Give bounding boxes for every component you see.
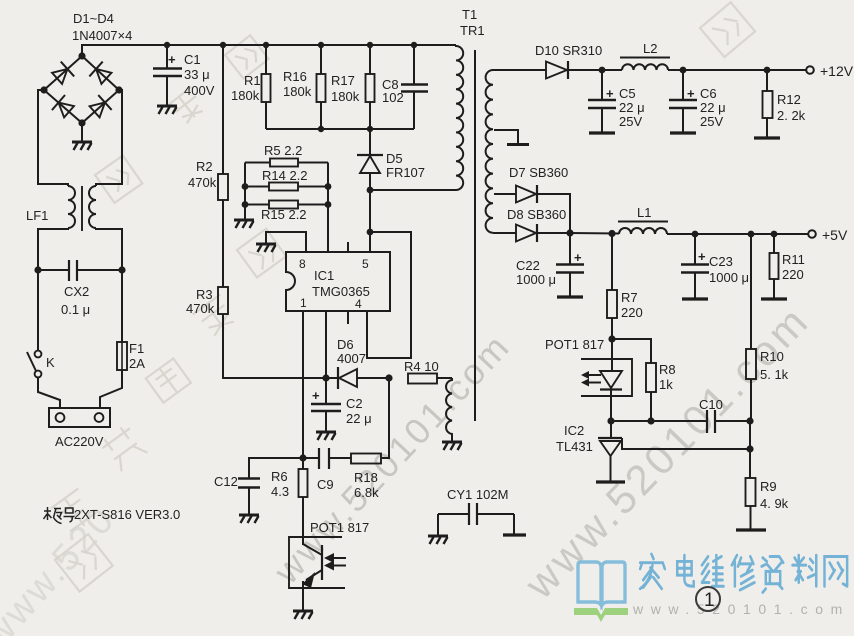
- svg-text:25V: 25V: [700, 114, 723, 129]
- node +12V rail C6: [680, 67, 687, 74]
- resistor R15: [245, 201, 328, 209]
- node R14 left: [242, 183, 249, 190]
- svg-text:1000 μ: 1000 μ: [709, 270, 749, 285]
- node top rail R1 junction: [263, 42, 269, 48]
- wire bridge right AC lead: [96, 90, 122, 186]
- svg-text:180k: 180k: [231, 88, 260, 103]
- wire secondary top tap to D10: [493, 69, 546, 71]
- wire IC pin2 to D6 node: [325, 311, 327, 378]
- node top rail C1 junction: [164, 42, 170, 48]
- wire CX2 left to switch: [37, 270, 39, 350]
- terminal +5V: [808, 230, 816, 238]
- wire switch to plug left pin: [38, 378, 60, 409]
- node R14 right: [325, 183, 332, 190]
- ground at IC pin8: [256, 244, 276, 252]
- resistor R8: [646, 363, 656, 421]
- svg-text:180k: 180k: [283, 84, 312, 99]
- diode D5 FR107: [357, 129, 383, 190]
- svg-text:+12V: +12V: [820, 63, 854, 79]
- ground bar below C22: [557, 295, 583, 298]
- ground below bridge: [72, 142, 92, 150]
- svg-text:R2: R2: [196, 159, 213, 174]
- transformer secondary winding: [486, 70, 493, 233]
- ground below C12: [239, 515, 259, 523]
- capacitor C9: [303, 448, 351, 469]
- svg-text:22 μ: 22 μ: [619, 100, 645, 115]
- resistor R11: [770, 234, 779, 298]
- inductor LF1 left winding: [68, 186, 75, 228]
- svg-text:C1: C1: [184, 52, 201, 67]
- wire CX2 right to fuse: [121, 270, 123, 342]
- svg-text:TR1: TR1: [460, 23, 485, 38]
- svg-text:www.520101.com: www.520101.com: [632, 601, 850, 617]
- ground bar secondary center tap: [507, 143, 529, 146]
- wire R10 bottom node to R9: [749, 421, 751, 478]
- capacitor CY1 102M: [438, 503, 514, 535]
- switch K: [27, 351, 41, 378]
- wire node to C12: [249, 458, 303, 478]
- node R8 bottom: [647, 417, 654, 424]
- svg-text:D7 SB360: D7 SB360: [509, 165, 568, 180]
- wire LF1 left to CX2 node: [38, 228, 68, 270]
- resistor R12: [763, 70, 773, 137]
- wire secondary bottom to D8: [493, 232, 516, 234]
- svg-text:R17: R17: [331, 73, 355, 88]
- node bottom rail R16: [318, 126, 324, 132]
- svg-text:180k: 180k: [331, 89, 360, 104]
- node R15 right: [325, 201, 332, 208]
- svg-text:IC1: IC1: [314, 268, 334, 283]
- svg-text:+: +: [312, 388, 320, 403]
- svg-text:5: 5: [362, 257, 369, 271]
- node C10 right / R10 bottom: [746, 417, 753, 424]
- svg-text:CY1 102M: CY1 102M: [447, 487, 508, 502]
- node C23 junction: [692, 231, 699, 238]
- svg-text:L1: L1: [637, 205, 651, 220]
- wire bridge left AC lead: [38, 90, 68, 186]
- fuse F1: [117, 342, 127, 370]
- wire pin5: [369, 232, 371, 252]
- svg-text:C12: C12: [214, 474, 238, 489]
- node bottom rail R17: [367, 126, 373, 132]
- svg-text:22 μ: 22 μ: [346, 411, 372, 426]
- resistor R1: [262, 45, 271, 129]
- svg-text:6.8k: 6.8k: [354, 485, 379, 500]
- wire IC pin8 to ground: [266, 232, 306, 252]
- ground below phototransistor: [293, 611, 313, 619]
- svg-text:D5: D5: [386, 151, 403, 166]
- logo book icon: [578, 562, 625, 605]
- ground below feedback winding: [442, 442, 462, 450]
- diode D6 4007: [326, 367, 389, 389]
- label ban hao (board number chinese): [44, 507, 75, 524]
- svg-text:C9: C9: [317, 477, 334, 492]
- diode D10 SR310: [546, 61, 602, 79]
- wire fuse to plug right pin: [100, 370, 122, 408]
- ground below C2: [316, 432, 336, 440]
- LF1 core: [81, 186, 83, 231]
- svg-text:R12: R12: [777, 92, 801, 107]
- node R15 left: [242, 201, 249, 208]
- svg-text:TL431: TL431: [556, 439, 593, 454]
- svg-text:1k: 1k: [659, 377, 673, 392]
- svg-text:25V: 25V: [619, 114, 642, 129]
- svg-text:1000 μ: 1000 μ: [516, 272, 556, 287]
- resistor R5: [245, 159, 328, 167]
- svg-text:D1~D4: D1~D4: [73, 11, 114, 26]
- resistor R14: [245, 183, 328, 191]
- capacitor C8: [401, 45, 428, 129]
- terminal bar below R9: [736, 528, 766, 531]
- ground bar below C6: [670, 131, 696, 134]
- svg-text:+: +: [168, 52, 176, 67]
- ground below R5 block: [234, 220, 254, 228]
- svg-text:220: 220: [621, 305, 643, 320]
- svg-text:POT1 817: POT1 817: [545, 337, 604, 352]
- svg-text:2XT-S816 VER3.0: 2XT-S816 VER3.0: [74, 507, 180, 522]
- svg-text:L2: L2: [643, 41, 657, 56]
- node +12V rail C5: [599, 67, 606, 74]
- svg-text:22 μ: 22 μ: [700, 100, 726, 115]
- node TL431 ref / R9 top: [746, 445, 753, 452]
- wire IC pin1 down: [302, 311, 304, 458]
- wire D5 node to primary bottom: [370, 189, 456, 191]
- diode D1 (bridge top-left): [50, 62, 74, 86]
- resistor R3: [218, 200, 228, 314]
- svg-text:T1: T1: [462, 7, 477, 22]
- wire D5 node down to pin5 node: [369, 190, 371, 232]
- wire pin5 net loop to pin4: [367, 232, 411, 358]
- terminal +12V: [806, 66, 814, 74]
- logo book ribbon: [574, 608, 628, 622]
- wire node to R8 top: [612, 339, 651, 363]
- capacitor C1: [153, 45, 182, 105]
- svg-text:400V: 400V: [184, 83, 215, 98]
- resistor R6: [299, 458, 308, 545]
- svg-text:D8 SB360: D8 SB360: [507, 207, 566, 222]
- ground bar below R11: [761, 297, 787, 300]
- resistor R10: [746, 234, 756, 421]
- svg-text:4.3: 4.3: [271, 484, 289, 499]
- svg-text:4: 4: [355, 297, 362, 311]
- svg-text:FR107: FR107: [386, 165, 425, 180]
- svg-text:C6: C6: [700, 86, 717, 101]
- svg-text:+5V: +5V: [822, 227, 848, 243]
- capacitor C10: [707, 410, 750, 433]
- node R7/R8/LED: [608, 335, 615, 342]
- svg-text:C2: C2: [346, 396, 363, 411]
- resistor R7: [607, 234, 617, 340]
- resistor R4: [408, 374, 452, 384]
- wire R5 block right rail to IC pin7: [327, 163, 329, 253]
- svg-text:R7: R7: [621, 290, 638, 305]
- diode D7 SB360: [516, 185, 570, 233]
- capacitor C22: [556, 233, 584, 296]
- svg-text:R4 10: R4 10: [404, 359, 439, 374]
- svg-text:C10: C10: [699, 397, 723, 412]
- svg-text:R18: R18: [354, 470, 378, 485]
- terminal bar below TL431: [596, 480, 625, 483]
- svg-text:1N4007×4: 1N4007×4: [72, 28, 132, 43]
- inductor L2: [620, 58, 670, 71]
- resistor R18: [351, 378, 389, 464]
- svg-text:102: 102: [382, 90, 404, 105]
- logo text jia (home appliance repair site name): [640, 554, 847, 592]
- svg-text:R11: R11: [782, 252, 805, 267]
- transformer core: [474, 50, 476, 421]
- node D5 anode / primary return: [367, 187, 374, 194]
- svg-text:IC2: IC2: [564, 423, 584, 438]
- svg-text:1: 1: [704, 590, 715, 611]
- capacitor C6: [669, 70, 697, 132]
- svg-text:R14 2.2: R14 2.2: [262, 168, 308, 183]
- svg-text:0.1 μ: 0.1 μ: [61, 302, 90, 317]
- svg-text:470k: 470k: [186, 301, 215, 316]
- svg-text:R16: R16: [283, 69, 307, 84]
- svg-text:8: 8: [299, 257, 306, 271]
- wire feedback line to C10: [611, 420, 707, 422]
- svg-text:2. 2k: 2. 2k: [777, 108, 806, 123]
- svg-text:R1: R1: [244, 73, 261, 88]
- optocoupler POT1 phototransistor: [289, 537, 346, 610]
- node top rail R2 junction: [220, 42, 226, 48]
- svg-text:220: 220: [782, 267, 804, 282]
- IC2 TL431: [598, 421, 750, 481]
- node pin1 / feedback divider: [299, 454, 306, 461]
- node top rail R17 junction: [367, 42, 373, 48]
- AC220V plug: [49, 408, 110, 427]
- ground bar below C23: [682, 297, 708, 300]
- resistor R17: [366, 45, 375, 129]
- transformer T1 TR1 primary winding: [456, 45, 463, 190]
- wire secondary center tap: [494, 130, 518, 144]
- resistor R2: [218, 45, 228, 200]
- wire R3 bottom to D6 node: [223, 314, 326, 378]
- capacitor CX2: [38, 260, 122, 281]
- capacitor C5: [588, 70, 616, 132]
- wire LF1 right to CX2 node: [96, 228, 122, 270]
- diode D2 (bridge top-right): [89, 62, 113, 86]
- svg-text:C23: C23: [709, 254, 733, 269]
- capacitor C23: [681, 234, 709, 298]
- node +12V rail R12: [764, 67, 771, 74]
- svg-text:4007: 4007: [337, 351, 366, 366]
- pin stub bottom (pin 3): [347, 311, 349, 324]
- wire bottom rail of R1 row: [266, 128, 414, 130]
- node D7/D8/C22: [566, 229, 573, 236]
- bridge rectifier D1-D4 frame: [40, 52, 122, 126]
- svg-text:R6: R6: [271, 469, 288, 484]
- ground below CY1 left: [428, 536, 448, 544]
- diode D3 (bridge bottom-left): [52, 95, 76, 119]
- node CX2 right: [118, 266, 125, 273]
- svg-text:2A: 2A: [129, 356, 145, 371]
- svg-text:33 μ: 33 μ: [184, 67, 210, 82]
- wire secondary tap to D7: [494, 193, 516, 195]
- svg-text:470k: 470k: [188, 175, 217, 190]
- wire bridge minus to ground: [81, 123, 83, 141]
- node R7 junction: [608, 230, 615, 237]
- svg-text:CX2: CX2: [64, 284, 89, 299]
- svg-text:+: +: [606, 86, 614, 101]
- svg-text:R3: R3: [196, 287, 213, 302]
- wire C5 node to L2: [602, 69, 622, 71]
- svg-text:D10 SR310: D10 SR310: [535, 43, 602, 58]
- inductor LF1 right winding: [89, 186, 96, 228]
- svg-text:D6: D6: [337, 337, 354, 352]
- node CX2 left: [34, 266, 41, 273]
- svg-text:4. 9k: 4. 9k: [760, 496, 789, 511]
- svg-text:C22: C22: [516, 258, 540, 273]
- svg-text:R8: R8: [659, 362, 676, 377]
- node D6 anode: [322, 374, 329, 381]
- wire L2 to +12V terminal: [668, 69, 806, 71]
- node R10 junction: [748, 231, 755, 238]
- wire R5 block left rail to ground: [244, 163, 246, 220]
- node R11 junction: [771, 231, 778, 238]
- resistor R9: [746, 478, 756, 529]
- svg-text:R15 2.2: R15 2.2: [261, 207, 307, 222]
- node LED cathode / TL431: [607, 417, 614, 424]
- svg-text:R5 2.2: R5 2.2: [264, 143, 302, 158]
- svg-text:K: K: [46, 355, 55, 370]
- wire main top rail: [82, 45, 456, 56]
- capacitor C2: [311, 378, 341, 431]
- svg-text:C5: C5: [619, 86, 636, 101]
- capacitor C12: [238, 479, 260, 515]
- svg-text:+: +: [698, 249, 706, 264]
- svg-text:R9: R9: [760, 479, 777, 494]
- inductor feedback winding: [446, 378, 452, 441]
- svg-text:5. 1k: 5. 1k: [760, 367, 789, 382]
- diode D4 (bridge bottom-right): [88, 95, 112, 119]
- node top rail R16 junction: [318, 42, 324, 48]
- inductor L1: [618, 222, 668, 235]
- svg-text:F1: F1: [129, 341, 144, 356]
- ground bar below C5: [589, 131, 615, 134]
- optocoupler POT1 LED: [581, 339, 632, 421]
- svg-text:1: 1: [300, 296, 307, 310]
- ground below C1: [157, 106, 177, 114]
- logo circled 1: [696, 587, 720, 611]
- IC1 TMG0365 body: [286, 252, 390, 311]
- node pin5 net: [367, 229, 374, 236]
- svg-text:AC220V: AC220V: [55, 434, 104, 449]
- svg-text:LF1: LF1: [26, 208, 48, 223]
- ground bar below R12: [754, 136, 780, 139]
- svg-text:R10: R10: [760, 349, 784, 364]
- terminal bar CY1 right: [503, 533, 526, 536]
- pin stub top (pin 6): [347, 242, 349, 252]
- resistor R16: [317, 45, 326, 129]
- wire C22 node to L1: [570, 232, 619, 235]
- node R4/R18 junction: [385, 374, 392, 381]
- node top rail C8 junction: [411, 42, 417, 48]
- diode D8 SB360: [516, 224, 570, 242]
- svg-text:+: +: [687, 86, 695, 101]
- svg-text:+: +: [574, 250, 582, 265]
- wire L1 to +5V terminal: [667, 233, 808, 235]
- svg-text:POT1 817: POT1 817: [310, 520, 369, 535]
